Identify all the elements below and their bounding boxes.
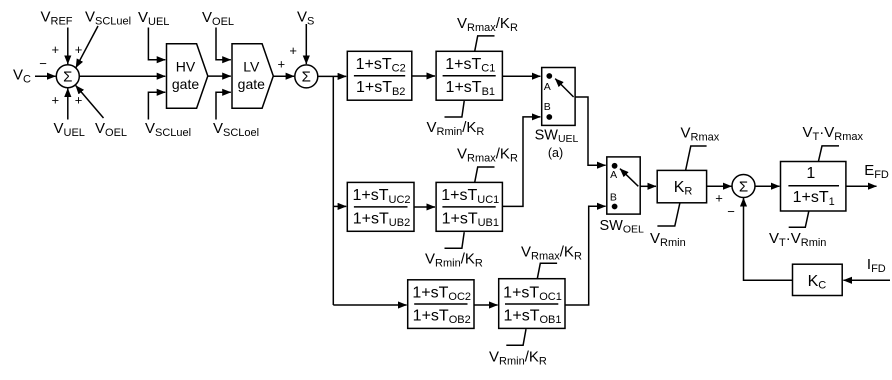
svg-text:1+sTOC2: 1+sTOC2 bbox=[412, 284, 471, 303]
wire V_REF down arrow bbox=[67, 28, 69, 65]
limiter mark VRmin on KR block bbox=[657, 203, 680, 226]
block (1+sTC1)/(1+sTB1) bbox=[436, 51, 502, 100]
summing junction S1 bbox=[56, 65, 79, 88]
limiter mark VRmax on KR block bbox=[686, 146, 707, 170]
wire TOC2 block to TOC1 block bbox=[474, 304, 498, 306]
svg-text:+: + bbox=[52, 93, 60, 108]
limiter mark VRmax/KR on TUC1 block bbox=[475, 167, 495, 182]
wire TUC2 block to TUC1 block bbox=[414, 206, 435, 208]
wire V_OEL into LV gate bbox=[216, 28, 231, 60]
svg-text:IFD: IFD bbox=[867, 256, 886, 275]
svg-text:VRmax/KR: VRmax/KR bbox=[521, 244, 582, 263]
svg-text:VRmin/KR: VRmin/KR bbox=[427, 119, 485, 138]
svg-text:A: A bbox=[610, 169, 617, 181]
svg-text:gate: gate bbox=[238, 76, 265, 92]
svg-text:B: B bbox=[544, 101, 551, 113]
wire TUC1 block to switch SW_UEL input B bbox=[502, 117, 540, 206]
svg-text:Σ: Σ bbox=[302, 69, 311, 86]
svg-text:1+sTOB2: 1+sTOB2 bbox=[413, 308, 471, 327]
node A of SW_OEL bbox=[612, 163, 618, 169]
wire V_SCLuel into HV gate bbox=[148, 92, 165, 119]
wire V_UEL into HV gate bbox=[148, 28, 165, 60]
svg-text:1+sTOB1: 1+sTOB1 bbox=[503, 308, 561, 327]
svg-text:VC: VC bbox=[13, 67, 31, 86]
limiter mark VT*VRmax on T1 block bbox=[818, 146, 839, 162]
svg-text:VUEL: VUEL bbox=[54, 120, 85, 139]
svg-text:A: A bbox=[544, 81, 551, 93]
limiter mark VRmin/KR on TC1 block bbox=[445, 101, 465, 117]
svg-text:gate: gate bbox=[172, 76, 199, 92]
svg-text:VRmax: VRmax bbox=[681, 125, 720, 144]
wire S3 to T1 block bbox=[755, 185, 780, 187]
wire V_SCLoel into LV gate bbox=[216, 92, 231, 119]
svg-text:KR: KR bbox=[674, 179, 693, 198]
svg-text:Σ: Σ bbox=[739, 179, 748, 196]
svg-text:SWOEL: SWOEL bbox=[600, 218, 645, 236]
limiter mark VRmax/KR on TOC1 block bbox=[537, 263, 557, 278]
wire branch vertical feeding lower paths bbox=[332, 76, 334, 305]
block (1+sTOC1)/(1+sTOB1) bbox=[499, 279, 565, 329]
wire KR to summing junction S3 bbox=[707, 185, 732, 187]
svg-text:+: + bbox=[289, 43, 297, 58]
svg-text:1+sTB2: 1+sTB2 bbox=[356, 79, 405, 98]
svg-text:+: + bbox=[75, 42, 83, 57]
limiter mark VRmin/KR on TOC1 block bbox=[506, 329, 526, 345]
svg-text:1+sTUB1: 1+sTUB1 bbox=[442, 210, 499, 229]
svg-text:VRmax/KR: VRmax/KR bbox=[457, 15, 518, 34]
svg-text:EFD: EFD bbox=[864, 162, 889, 181]
svg-text:−: − bbox=[727, 204, 735, 219]
svg-text:Σ: Σ bbox=[63, 69, 72, 86]
HV gate bbox=[167, 44, 208, 109]
svg-text:+: + bbox=[52, 42, 60, 57]
svg-text:VRmax/KR: VRmax/KR bbox=[457, 146, 518, 165]
wire TC2 block to TC1 block bbox=[412, 75, 435, 77]
wire KC to summing junction S3 bbox=[744, 198, 793, 280]
wire SW_OEL output to KR block bbox=[640, 185, 656, 187]
svg-text:−: − bbox=[39, 56, 47, 71]
svg-text:1+sTUC1: 1+sTUC1 bbox=[441, 187, 499, 206]
svg-text:VT·VRmin: VT·VRmin bbox=[769, 230, 826, 249]
svg-text:VSCLuel: VSCLuel bbox=[85, 9, 131, 28]
svg-text:+: + bbox=[715, 190, 723, 205]
wire V_OEL diagonal arrow bbox=[76, 86, 104, 119]
svg-text:1+sTUB2: 1+sTUB2 bbox=[353, 210, 410, 229]
wire TC1 block to switch SW_UEL input A bbox=[502, 75, 540, 77]
switch arm of SW_OEL bbox=[620, 169, 638, 187]
svg-text:1+sT1: 1+sT1 bbox=[793, 189, 835, 208]
svg-text:1: 1 bbox=[806, 165, 815, 182]
block (1+sTC2)/(1+sTB2) bbox=[347, 51, 412, 100]
LV gate bbox=[232, 44, 273, 109]
wire T1 block to EFD output bbox=[846, 185, 877, 187]
svg-text:VSCLoel: VSCLoel bbox=[213, 120, 259, 139]
limiter mark VRmax/KR on TC1 block bbox=[475, 36, 495, 51]
svg-text:+: + bbox=[75, 93, 83, 108]
wire V_UEL up arrow bbox=[67, 88, 69, 119]
wire TOC1 block to switch SW_OEL input B bbox=[565, 206, 606, 305]
svg-text:VOEL: VOEL bbox=[202, 9, 234, 28]
svg-text:VUEL: VUEL bbox=[138, 9, 169, 28]
node B of SW_UEL bbox=[546, 114, 552, 120]
svg-text:VSCLuel: VSCLuel bbox=[145, 120, 191, 139]
svg-text:(a): (a) bbox=[548, 146, 563, 160]
wire branch to bottom path block bbox=[333, 304, 406, 306]
svg-text:1+sTB1: 1+sTB1 bbox=[446, 79, 495, 98]
block 1/(1+sT1) bbox=[781, 162, 846, 212]
svg-text:1+sTC2: 1+sTC2 bbox=[356, 56, 406, 75]
wire V_S down arrow bbox=[305, 24, 307, 64]
svg-text:1+sTUC2: 1+sTUC2 bbox=[352, 187, 410, 206]
node B of SW_OEL bbox=[612, 204, 618, 210]
svg-text:VREF: VREF bbox=[41, 9, 73, 28]
wire S1 to HV gate bbox=[79, 75, 165, 77]
svg-text:B: B bbox=[610, 192, 617, 204]
svg-text:1+sTC1: 1+sTC1 bbox=[445, 56, 495, 75]
block KR bbox=[657, 170, 706, 202]
block (1+sTOC2)/(1+sTOB2) bbox=[408, 280, 474, 329]
switch SW_OEL box bbox=[607, 157, 640, 214]
block (1+sTUC1)/(1+sTUB1) bbox=[436, 182, 502, 231]
svg-text:VOEL: VOEL bbox=[95, 120, 127, 139]
switch arm of SW_UEL bbox=[555, 79, 573, 97]
svg-text:1+sTOC1: 1+sTOC1 bbox=[503, 284, 562, 303]
svg-text:VRmin: VRmin bbox=[650, 230, 686, 249]
wire branch to middle path block bbox=[333, 205, 346, 207]
wire LV gate to summing junction S2 bbox=[273, 75, 294, 77]
wire S2 to block T_C2 bbox=[318, 75, 346, 77]
summing junction S3 bbox=[732, 175, 755, 198]
block KC bbox=[793, 264, 843, 295]
wire IFD into KC block bbox=[843, 279, 890, 281]
limiter mark VT*VRmin on T1 block bbox=[789, 211, 809, 227]
summing junction S2 bbox=[295, 65, 318, 88]
svg-text:SWUEL: SWUEL bbox=[535, 128, 579, 146]
svg-text:HV: HV bbox=[176, 58, 196, 74]
node A of SW_UEL bbox=[546, 73, 552, 79]
switch SW_UEL box bbox=[542, 68, 575, 126]
wire V_SCLuel diagonal arrow bbox=[76, 26, 98, 68]
svg-text:VT·VRmax: VT·VRmax bbox=[803, 124, 864, 143]
block (1+sTUC2)/(1+sTUB2) bbox=[347, 182, 414, 231]
wire SW_UEL output to SW_OEL input A bbox=[575, 97, 606, 165]
wire HV gate to LV gate bbox=[208, 75, 231, 77]
svg-text:VRmin/KR: VRmin/KR bbox=[489, 349, 547, 368]
svg-text:+: + bbox=[278, 56, 286, 71]
limiter mark VRmin/KR on TUC1 block bbox=[445, 232, 465, 248]
svg-text:KC: KC bbox=[808, 273, 827, 292]
svg-text:VRmin/KR: VRmin/KR bbox=[425, 250, 483, 269]
wire V_C input arrow bbox=[35, 75, 56, 77]
svg-text:LV: LV bbox=[243, 58, 260, 74]
